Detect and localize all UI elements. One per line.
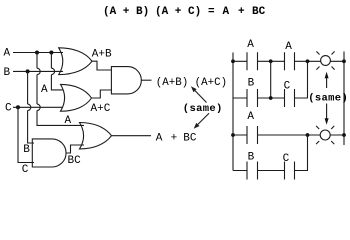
node mid rung1 (269, 59, 273, 63)
and-gate U2 (BC) (32, 139, 66, 167)
svg-text:(A + B)(A + C)=A+BC: (A + B)(A + C)=A+BC (103, 6, 266, 18)
svg-text:A+BC: A+BC (156, 132, 197, 144)
ladder left rail (232, 53, 234, 171)
svg-text:C: C (284, 80, 291, 92)
contact A1 bars (247, 52, 258, 70)
arrow to (A+B)(A+C) (195, 91, 207, 103)
contact B1 bars (247, 89, 258, 107)
svg-text:(same): (same) (308, 92, 348, 104)
contact A2 bars (285, 52, 295, 70)
svg-text:B: B (248, 152, 255, 164)
wire C to AND2 (18, 107, 34, 162)
rung 1 wire segments (233, 60, 344, 62)
wire OR1 output to AND1 (92, 61, 111, 70)
contact C2 bars (285, 162, 295, 180)
lamp L1 (316, 51, 334, 69)
svg-text:A: A (285, 41, 292, 53)
rung 2 wire segments (233, 134, 344, 136)
subrung 1 wire segments (233, 97, 285, 99)
wire B horizontal (13, 70, 63, 72)
svg-text:C: C (5, 102, 12, 114)
contact B2 bars (247, 162, 258, 180)
node rail-right rung1 (342, 59, 346, 63)
node A junction 2 (49, 51, 53, 55)
node B junction (26, 69, 30, 73)
svg-text:A+B: A+B (92, 49, 112, 61)
svg-text:C: C (283, 153, 290, 165)
svg-text:A: A (4, 47, 11, 59)
contact C1 bars (285, 89, 295, 107)
wire AND2 output to OR3 (66, 145, 84, 153)
svg-text:B: B (248, 77, 255, 89)
wire A horizontal (13, 52, 63, 54)
node rail-left rung2 (231, 133, 235, 137)
wire A to OR3 with hops over B and C (37, 53, 84, 126)
wire OR2 output to AND1 (92, 90, 112, 98)
wire A to OR2 with hop over B (51, 53, 63, 90)
svg-text:A: A (247, 39, 254, 51)
svg-text:BC: BC (68, 155, 82, 167)
node mid rung2 (306, 133, 310, 137)
arrow to A+BC (198, 113, 209, 124)
wire AND1 output (141, 79, 151, 81)
svg-text:A: A (41, 84, 48, 96)
svg-text:A: A (247, 111, 254, 123)
node rail-right rung2 (342, 133, 346, 137)
double arrow between lamps (326, 77, 328, 121)
svg-text:A+C: A+C (91, 103, 111, 115)
node C junction (16, 105, 20, 109)
wire C horizontal (13, 106, 63, 108)
or-gate OR2 (A+C) (61, 84, 92, 111)
svg-text:A: A (65, 115, 72, 127)
lamp L2 (316, 126, 334, 144)
svg-text:B: B (4, 67, 11, 79)
or-gate OR3 (A+BC) (80, 122, 112, 148)
node subrung1 (269, 96, 273, 100)
svg-text:C: C (22, 164, 29, 176)
branch wire node2 down (295, 61, 308, 98)
ladder right rail (343, 52, 345, 146)
or-gate OR1 (A+B) (59, 48, 92, 75)
subrung 2 wire segments (233, 135, 308, 171)
branch wire node1 down (270, 61, 272, 98)
node A junction 1 (35, 51, 39, 55)
wire B to AND2 with hop over C (28, 71, 34, 143)
and-gate U1 (A+B)(A+C) (111, 67, 141, 94)
svg-text:B: B (23, 144, 30, 156)
svg-text:(same): (same) (183, 103, 223, 115)
node right rung1 (306, 59, 310, 63)
contact A3 bars (247, 126, 258, 144)
node rail-left rung1 (231, 59, 235, 63)
wire OR3 output (112, 135, 152, 137)
